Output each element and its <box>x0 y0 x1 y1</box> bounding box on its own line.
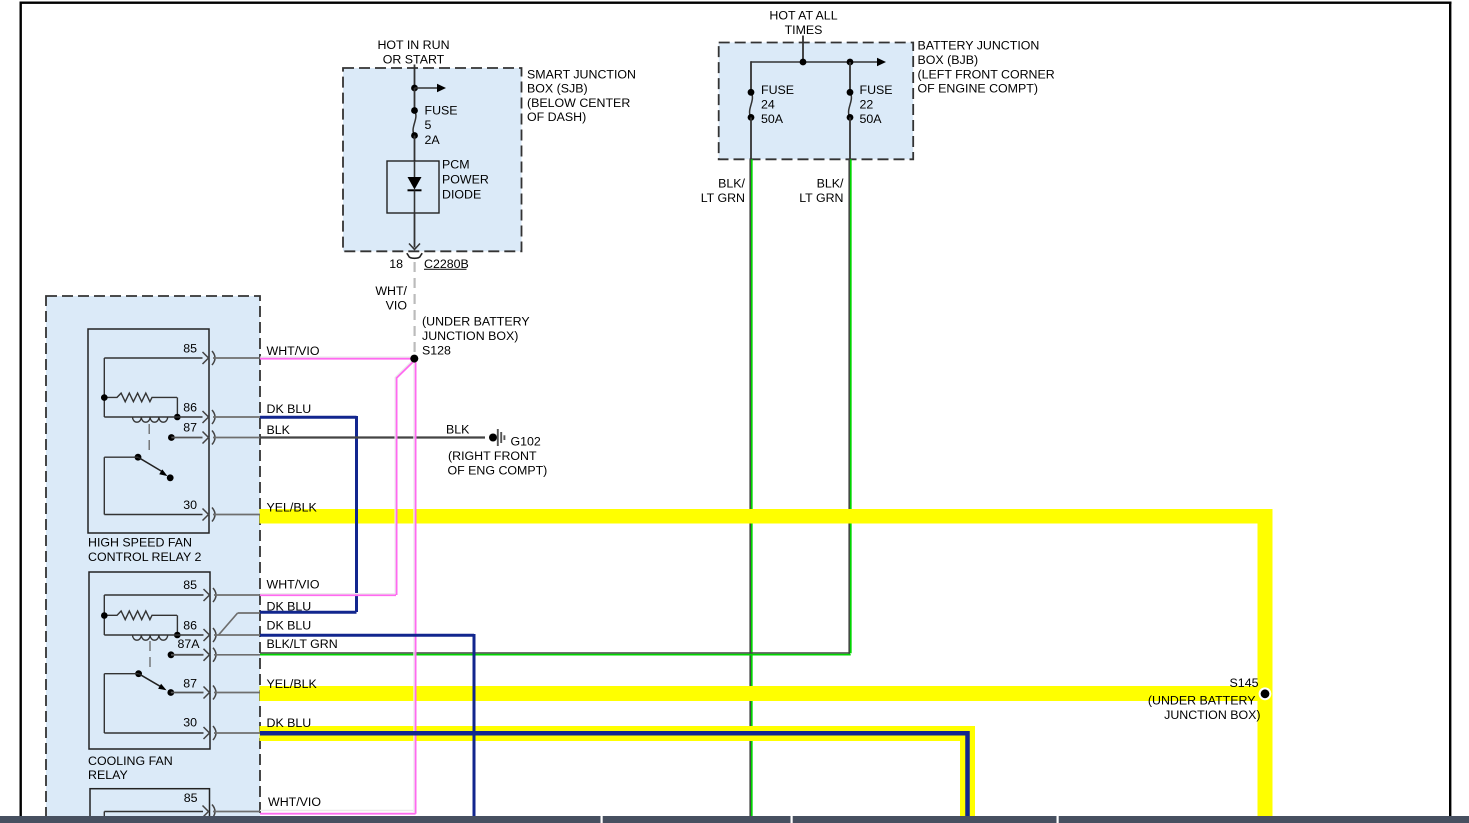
wire label BLK/LT GRN (fuse 24) <box>701 177 746 206</box>
relay K2 pin 87A <box>177 637 216 662</box>
svg-text:SMART JUNCTION: SMART JUNCTION <box>527 67 636 81</box>
svg-text:30: 30 <box>183 498 197 512</box>
wire K2 pin87A gray segment <box>214 654 260 656</box>
bottom continuation bar <box>0 816 1469 823</box>
label DK BLU (incoming) <box>267 600 312 614</box>
relay K3 (box, partially visible) <box>90 789 210 823</box>
svg-text:TIMES: TIMES <box>785 23 823 37</box>
wire WHT/VIO dashed from C2280B to splice S128 <box>414 262 416 357</box>
connector name C2280B <box>424 257 469 271</box>
svg-text:PCM: PCM <box>442 158 470 172</box>
wire label BLK/LT GRN (fuse 22) <box>799 177 844 206</box>
label DK BLU (K2 30) <box>267 716 312 730</box>
svg-text:LT GRN: LT GRN <box>799 191 843 205</box>
relay K2 pin 87A contact <box>168 651 204 658</box>
svg-text:DIODE: DIODE <box>442 188 481 202</box>
svg-text:BLK: BLK <box>446 423 470 437</box>
wire fuse 24 to box edge <box>750 117 752 159</box>
wire DK BLU from K1 pin 86 down to relay K2 pin 86 row <box>260 416 357 612</box>
svg-text:HIGH SPEED FAN: HIGH SPEED FAN <box>88 536 192 550</box>
svg-text:86: 86 <box>183 618 197 632</box>
svg-text:BLK/LT GRN: BLK/LT GRN <box>267 637 338 651</box>
relay K2 pin 87 wire <box>171 692 204 694</box>
svg-text:85: 85 <box>183 341 197 355</box>
relay K2 switch common wire to pin 30 <box>104 674 203 733</box>
svg-text:2A: 2A <box>425 133 441 147</box>
relay K1 resistor <box>101 393 181 420</box>
wire DK BLU from K2 pin 30 right then down (highlighted) <box>260 731 968 816</box>
BJB bus wire with arrow <box>751 58 886 66</box>
svg-text:CONTROL RELAY 2: CONTROL RELAY 2 <box>88 550 201 564</box>
svg-text:86: 86 <box>183 400 197 414</box>
relay K1 pin 87 <box>183 421 215 445</box>
label WHT/VIO (K2 85) <box>267 578 320 592</box>
svg-text:JUNCTION BOX): JUNCTION BOX) <box>422 329 518 343</box>
PCM POWER DIODE label <box>442 158 489 202</box>
svg-text:DK BLU: DK BLU <box>267 618 312 632</box>
label WHT/VIO (K1 85) <box>267 344 320 358</box>
wire BLK/LT GRN from fuse 24 down to bottom <box>750 159 752 816</box>
svg-text:87A: 87A <box>177 637 200 651</box>
splice S145 <box>1259 687 1272 700</box>
fuse F22 50A <box>847 89 854 121</box>
svg-text:DK BLU: DK BLU <box>267 716 312 730</box>
highlighted DK BLU wire from relay K2 pin 30 (horizontal band) <box>260 726 976 741</box>
svg-text:JUNCTION BOX): JUNCTION BOX) <box>1164 708 1260 722</box>
svg-text:LT GRN: LT GRN <box>701 191 745 205</box>
svg-text:BATTERY JUNCTION: BATTERY JUNCTION <box>918 39 1040 53</box>
BJB description label <box>918 39 1055 96</box>
wire BLK/LT GRN from fuse 22 down then left to relay K2 pin 87A <box>260 159 851 655</box>
wire K1 pin85 gray segment <box>213 357 260 359</box>
wire WHT/VIO from S128 down to relay K3 pin 85 <box>414 362 416 814</box>
svg-text:RELAY: RELAY <box>88 768 128 782</box>
label HOT AT ALL TIMES <box>769 9 837 37</box>
svg-text:87: 87 <box>183 421 197 435</box>
label WHT/VIO (K3 85) <box>268 795 321 809</box>
svg-text:FUSE: FUSE <box>425 104 458 118</box>
wire K2 pin85 gray segment <box>214 594 260 596</box>
svg-text:BOX (BJB): BOX (BJB) <box>918 53 979 67</box>
label DK BLU (K1 86) <box>267 402 312 416</box>
relay K1 pin 85 <box>183 341 215 365</box>
svg-text:BLK/: BLK/ <box>718 177 745 191</box>
battery junction box BJB (dashed box) <box>719 43 914 160</box>
wire from HOT IN RUN into SJB <box>414 65 416 89</box>
relay K3 pin 85 <box>184 791 215 819</box>
relay K1 switch common wire to pin 30 <box>104 457 202 514</box>
svg-text:FUSE: FUSE <box>860 83 893 97</box>
relay K2 coil <box>104 635 203 640</box>
wire K2 pin30 gray segment <box>214 732 260 734</box>
svg-text:85: 85 <box>184 791 198 805</box>
svg-text:(UNDER BATTERY: (UNDER BATTERY <box>422 315 530 329</box>
relay K2 pin 30 <box>183 716 216 741</box>
wire K2 pin87 gray segment <box>214 692 260 694</box>
svg-text:OF ENGINE COMPT): OF ENGINE COMPT) <box>918 82 1038 96</box>
label DK BLU (K2 86) <box>267 618 312 632</box>
wire bus down to fuse 22 <box>849 62 851 92</box>
svg-text:DK BLU: DK BLU <box>267 402 312 416</box>
relay K2 linkage (dashed) <box>149 641 151 672</box>
svg-text:BLK/: BLK/ <box>817 177 844 191</box>
relay K2 switch <box>135 670 174 696</box>
svg-text:WHT/VIO: WHT/VIO <box>267 578 320 592</box>
fuse 5 value labels <box>425 104 458 148</box>
wire WHT/VIO into K3 pin 85 <box>260 810 416 813</box>
ground G102 symbol <box>489 429 504 446</box>
svg-text:VIO: VIO <box>386 299 408 313</box>
label HOT IN RUN OR START <box>377 38 449 67</box>
wire K1 pin30 gray segment <box>213 514 260 516</box>
svg-text:(RIGHT FRONT: (RIGHT FRONT <box>448 449 537 463</box>
wire K1 pin86 gray segment <box>213 416 260 418</box>
PCM power diode D1 (box) <box>387 161 439 213</box>
relay K1 pin 87 contact <box>168 434 203 441</box>
relay K1 linkage (dashed) <box>148 424 150 456</box>
relay K1 coil <box>104 417 202 422</box>
svg-text:87: 87 <box>183 677 197 691</box>
relay K1 pin 86 <box>183 400 215 424</box>
wire from HOT AT ALL TIMES into BJB <box>802 36 804 63</box>
svg-text:50A: 50A <box>761 112 784 126</box>
wire node to fuse 5 <box>414 88 416 111</box>
fuse 24 value labels <box>761 83 794 126</box>
svg-text:(UNDER BATTERY: (UNDER BATTERY <box>1148 694 1256 708</box>
connector C2280B symbol pin 18 <box>407 253 422 258</box>
splice S145 labels <box>1148 676 1261 722</box>
svg-text:HOT IN RUN: HOT IN RUN <box>377 38 449 52</box>
splice S128 <box>410 355 418 363</box>
wire gray jog from DK BLU into K2 pin 86 <box>219 613 261 635</box>
svg-text:BOX (SJB): BOX (SJB) <box>527 82 588 96</box>
svg-text:HOT AT ALL: HOT AT ALL <box>769 9 837 23</box>
svg-text:(BELOW CENTER: (BELOW CENTER <box>527 96 630 110</box>
wire WHT/VIO from K2 pin 85 <box>260 594 396 596</box>
svg-text:YEL/BLK: YEL/BLK <box>267 677 318 691</box>
relay K2 pin 85 <box>183 578 216 602</box>
svg-text:WHT/VIO: WHT/VIO <box>267 344 320 358</box>
highlighted DK BLU wire vertical band down from pin 30 run <box>960 726 975 816</box>
wire K1 pin87 gray segment <box>213 437 260 439</box>
node bus / fuse 24 branch <box>800 59 807 66</box>
relay K1 pin 30 <box>183 498 215 522</box>
relay K1 coil branch wire <box>104 358 202 417</box>
splice S128 labels <box>422 315 530 358</box>
svg-text:30: 30 <box>183 716 197 730</box>
relay K1 HIGH SPEED FAN CONTROL RELAY 2 (box) <box>88 329 209 533</box>
svg-text:OF DASH): OF DASH) <box>527 110 586 124</box>
svg-text:BLK: BLK <box>267 423 291 437</box>
label BLK (near relay) <box>267 423 291 437</box>
relay K2 pin 86 <box>183 618 216 642</box>
svg-text:COOLING FAN: COOLING FAN <box>88 754 173 768</box>
svg-text:5: 5 <box>425 118 432 132</box>
svg-text:50A: 50A <box>860 112 883 126</box>
fuse F5 2A <box>411 107 418 139</box>
svg-text:22: 22 <box>860 97 874 111</box>
svg-text:24: 24 <box>761 97 775 111</box>
label BLK (near ground) <box>446 423 470 437</box>
wire bus corner down to fuse 24 <box>750 61 752 92</box>
label WHT/VIO vertical wire <box>375 284 407 313</box>
wire diode to connector C2280B with arrow <box>409 213 420 250</box>
svg-text:WHT/VIO: WHT/VIO <box>268 795 321 809</box>
relay K2 pin 87 <box>183 677 216 700</box>
relay K2 COOLING FAN RELAY (box) <box>89 572 210 749</box>
node bus / fuse 22 branch <box>847 59 854 66</box>
SJB description label <box>527 67 636 124</box>
highlighted YEL/BLK wire from relay K1 pin 30 (horizontal band) <box>260 509 1273 524</box>
wire WHT/VIO from S128 down-left to relay K2 pin 85 <box>395 360 414 596</box>
wire fuse 22 to box edge <box>849 117 851 159</box>
label BLK/LT GRN (K2 87A) <box>267 637 338 651</box>
smart junction box SJB (dashed box) <box>343 68 522 251</box>
svg-text:S128: S128 <box>422 343 451 357</box>
svg-text:OR START: OR START <box>383 53 445 67</box>
wire BLK from K1 pin 87 to ground G102 <box>260 436 485 438</box>
fuse 22 value labels <box>860 83 893 126</box>
svg-text:G102: G102 <box>511 435 541 449</box>
svg-text:FUSE: FUSE <box>761 83 794 97</box>
wire DK BLU from K2 pin 86 right then down to bottom <box>260 634 474 816</box>
relay K2 name label <box>88 754 173 782</box>
svg-text:OF ENG COMPT): OF ENG COMPT) <box>448 464 548 478</box>
wire K3 pin85 gray segment <box>213 811 260 813</box>
label YEL/BLK (K1 30) <box>267 501 318 515</box>
relay assembly dashed box <box>46 296 260 823</box>
wire K2 pin86 gray segment <box>214 634 260 636</box>
relay K2 resistor <box>101 611 181 638</box>
highlighted wire vertical band to S145 and below <box>1258 509 1273 816</box>
relay K1 switch <box>135 454 174 481</box>
wire WHT/VIO from K1 pin 85 to splice S128 <box>260 357 414 359</box>
svg-text:85: 85 <box>183 578 197 592</box>
svg-text:WHT/: WHT/ <box>375 284 407 298</box>
svg-text:(LEFT FRONT CORNER: (LEFT FRONT CORNER <box>918 67 1055 81</box>
relay K2 coil branch wire <box>104 595 203 635</box>
svg-text:YEL/BLK: YEL/BLK <box>267 501 318 515</box>
svg-text:S145: S145 <box>1230 676 1259 690</box>
relay K3 internal wire <box>104 812 203 817</box>
svg-text:18: 18 <box>389 257 403 271</box>
ground G102 labels <box>448 435 548 478</box>
fuse F24 50A <box>748 89 755 121</box>
relay K1 name label <box>88 536 201 564</box>
node in SJB with arrow to other circuits <box>411 84 446 92</box>
svg-text:DK BLU: DK BLU <box>267 600 312 614</box>
label YEL/BLK (K2 87) <box>267 677 318 691</box>
pin number 18 <box>389 257 403 271</box>
highlighted YEL/BLK wire from relay K2 pin 87 to S145 (horizontal band) <box>260 686 1258 701</box>
wire fuse 5 to PCM power diode <box>414 136 416 162</box>
svg-text:POWER: POWER <box>442 173 489 187</box>
